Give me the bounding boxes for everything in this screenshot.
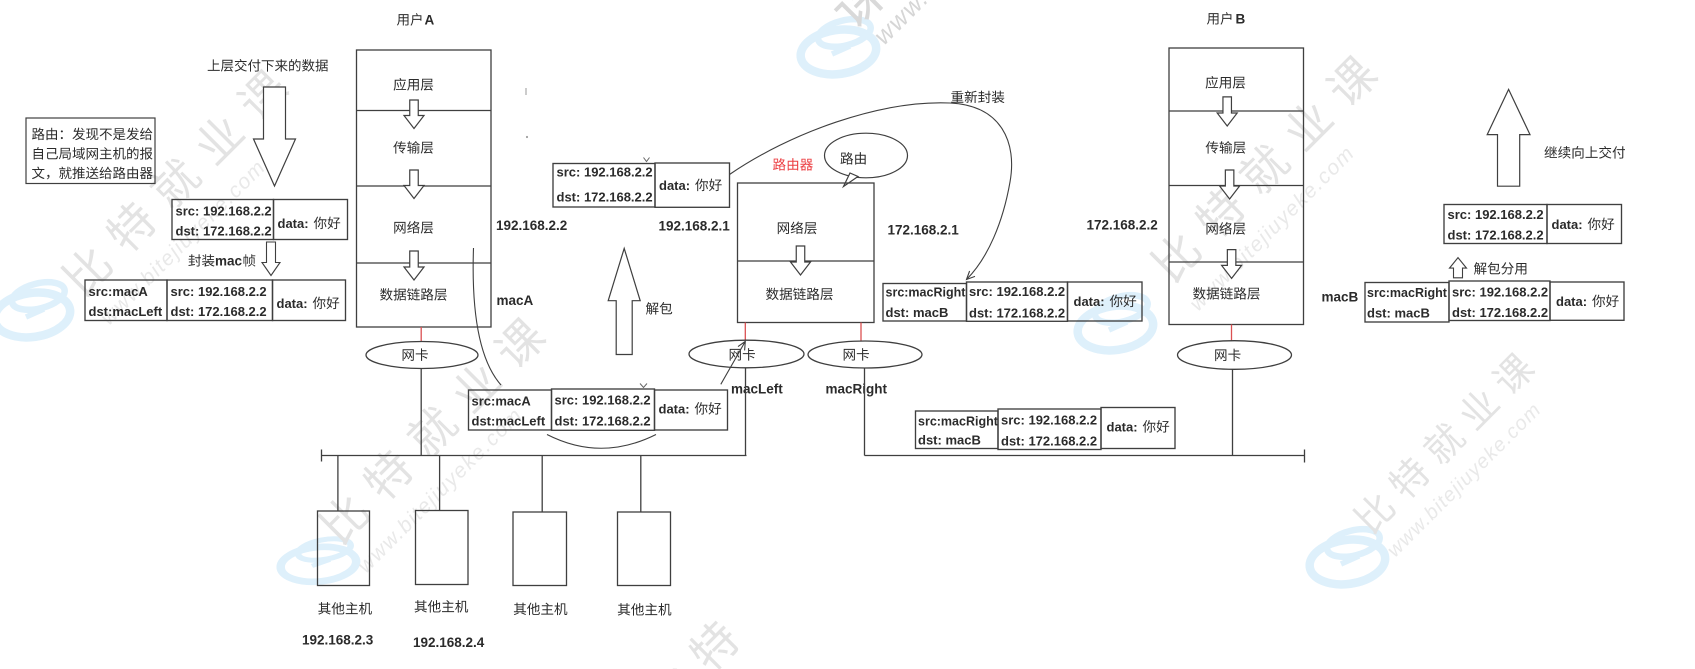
router network layer label	[778, 221, 817, 234]
svg-text:dst: 172.168.2.2: dst: 172.168.2.2	[171, 304, 267, 319]
packet P6 ip cell	[998, 409, 1101, 450]
router label (red)	[773, 158, 813, 171]
svg-text:data:: data:	[1556, 294, 1587, 309]
wire NIC right to bus	[864, 368, 866, 456]
bus left end tick	[321, 450, 323, 462]
packet P7 data cell	[1547, 205, 1622, 244]
svg-text:192.168.2.4: 192.168.2.4	[413, 635, 485, 650]
small arrow encapsulate	[262, 242, 280, 276]
svg-text:src: 192.168.2.2: src: 192.168.2.2	[557, 165, 653, 180]
small arrow unpack-demux	[1450, 258, 1467, 278]
svg-text:dst:macLeft: dst:macLeft	[472, 414, 546, 429]
user A NIC ellipse	[366, 342, 478, 369]
caption unpack	[646, 302, 672, 315]
svg-text:src: 192.168.2.2: src: 192.168.2.2	[555, 393, 651, 408]
svg-text:192.168.2.3: 192.168.2.3	[302, 633, 374, 648]
svg-text:A: A	[425, 13, 435, 28]
packet P3 ip cell	[553, 164, 655, 208]
host box 3	[513, 512, 567, 586]
svg-text:dst: macB: dst: macB	[918, 433, 981, 448]
host box 2	[416, 511, 469, 585]
router red link left	[744, 323, 746, 342]
svg-text:dst: 172.168.2.2: dst: 172.168.2.2	[1448, 228, 1544, 243]
svg-text:src:macRight: src:macRight	[918, 415, 999, 429]
wire user B NIC to bus	[1232, 369, 1234, 455]
user A arrow transport->network	[404, 170, 424, 199]
svg-text:src: 192.168.2.2: src: 192.168.2.2	[1001, 413, 1097, 428]
user A transport layer label	[393, 141, 433, 154]
svg-text:data:: data:	[278, 216, 309, 231]
packet P4 ip cell	[552, 389, 655, 430]
router NIC right ellipse	[808, 341, 922, 368]
router stack box	[738, 183, 875, 323]
user A network layer label	[394, 221, 433, 234]
svg-text:mac: mac	[215, 254, 243, 269]
wire host1	[337, 456, 339, 512]
svg-text:192.168.2.2: 192.168.2.2	[496, 218, 567, 233]
user B stack divider 1	[1169, 110, 1304, 112]
svg-text:dst: 172.168.2.2: dst: 172.168.2.2	[969, 306, 1065, 321]
svg-text:dst: 172.168.2.2: dst: 172.168.2.2	[1001, 434, 1097, 449]
svg-text:src: 192.168.2.2: src: 192.168.2.2	[1448, 207, 1544, 222]
user B arrow 1	[1217, 97, 1237, 126]
svg-text:data:: data:	[277, 296, 308, 311]
router note box	[26, 118, 155, 184]
caption unpack demux	[1474, 262, 1527, 275]
packet P1 ip cell	[172, 200, 274, 240]
svg-text:src:macA: src:macA	[89, 284, 149, 299]
user A stack divider 1	[357, 110, 492, 112]
svg-text:src:macA: src:macA	[472, 394, 532, 409]
user B app layer label	[1206, 76, 1246, 89]
user B red link	[1231, 325, 1233, 341]
packet P2 ip cell	[167, 280, 273, 321]
svg-text:data:: data:	[1107, 420, 1138, 435]
host label 1	[318, 602, 372, 615]
user B stack divider 3	[1169, 261, 1304, 263]
caption re-encapsulate	[951, 91, 1004, 104]
svg-text:data:: data:	[1074, 294, 1105, 309]
host box 1	[318, 511, 370, 586]
bus right end tick	[1304, 450, 1306, 463]
svg-text:dst:macLeft: dst:macLeft	[89, 304, 163, 319]
svg-text:macB: macB	[1322, 290, 1359, 305]
packet P2 mac cell	[85, 280, 167, 321]
svg-text:src:macRight: src:macRight	[1367, 286, 1448, 300]
user A stack divider 3	[357, 262, 492, 264]
arc under P4	[547, 435, 656, 449]
stray mark 1	[525, 88, 527, 95]
packet P3 data cell	[655, 163, 730, 207]
svg-text:dst: 172.168.2.2: dst: 172.168.2.2	[557, 190, 653, 205]
user B layer stack box	[1169, 48, 1304, 325]
host label 4	[618, 603, 672, 616]
bus left	[322, 455, 747, 457]
svg-text:dst: 172.168.2.2: dst: 172.168.2.2	[176, 224, 272, 239]
user A arrow network->datalink	[404, 251, 424, 280]
host label 3	[514, 603, 568, 616]
user B transport layer label	[1206, 141, 1246, 154]
wire host3	[541, 456, 543, 513]
router NIC left ellipse	[689, 340, 804, 368]
packet P5 ip cell	[967, 282, 1068, 321]
host label 2	[415, 600, 469, 613]
svg-text:data:: data:	[1552, 217, 1583, 232]
user B NIC ellipse	[1178, 341, 1292, 370]
svg-text:macRight: macRight	[826, 382, 888, 397]
host box 4	[618, 512, 671, 586]
label user B	[1207, 12, 1232, 25]
wire NIC left to bus	[745, 368, 747, 456]
packet P5 mac cell	[883, 284, 967, 322]
user B network layer label	[1207, 222, 1246, 235]
svg-text:192.168.2.1: 192.168.2.1	[659, 219, 731, 234]
router speech bubble	[825, 133, 908, 178]
router arrow network->datalink	[791, 246, 811, 275]
packet P6 mac cell	[916, 411, 999, 449]
svg-text:src: 192.168.2.2: src: 192.168.2.2	[1452, 285, 1548, 300]
user B arrow 2	[1220, 170, 1240, 199]
user A arrow app->transport	[404, 100, 424, 129]
user A stack to NIC red link	[420, 327, 422, 343]
svg-text:dst: 172.168.2.2: dst: 172.168.2.2	[555, 414, 651, 429]
user A datalink layer label	[380, 288, 447, 301]
packet P4 mac cell	[469, 390, 552, 430]
user B datalink layer label	[1193, 287, 1260, 300]
svg-text:src: 192.168.2.2: src: 192.168.2.2	[969, 284, 1065, 299]
packet P1 data cell	[274, 200, 348, 240]
packet P8 data cell	[1550, 282, 1624, 320]
big arrow data down	[254, 87, 296, 186]
packet P6 data cell	[1101, 408, 1175, 449]
svg-text:src: 192.168.2.2: src: 192.168.2.2	[171, 284, 267, 299]
caption encapsulate mac frame	[189, 254, 215, 266]
packet P7 ip cell	[1444, 205, 1547, 244]
wire host4	[640, 456, 642, 513]
stray mark 2	[526, 136, 528, 138]
svg-text:macLeft: macLeft	[731, 382, 783, 397]
svg-text:B: B	[1236, 12, 1246, 27]
caption upper data	[208, 59, 328, 72]
wire host2	[439, 456, 441, 511]
svg-text:src: 192.168.2.2: src: 192.168.2.2	[176, 204, 272, 219]
deliver-up big arrow	[1487, 89, 1530, 186]
user A layer stack box	[357, 50, 492, 327]
svg-text:src:macRight: src:macRight	[886, 286, 967, 300]
packet P4 data cell	[655, 390, 728, 430]
caption deliver up	[1545, 146, 1626, 159]
stray caret above P3	[644, 158, 650, 162]
svg-text:172.168.2.2: 172.168.2.2	[1087, 218, 1158, 233]
svg-text:macA: macA	[497, 293, 534, 308]
wire user A NIC to bus	[420, 369, 422, 456]
user B stack divider 2	[1169, 185, 1304, 187]
router datalink layer label	[766, 288, 833, 301]
bus right	[865, 455, 1305, 457]
arrow P4 to NIC left	[721, 341, 746, 384]
svg-text:dst: macB: dst: macB	[1367, 306, 1430, 321]
svg-text:dst: macB: dst: macB	[886, 305, 949, 320]
curve user A to packet P4	[473, 248, 501, 385]
svg-text:dst: 172.168.2.2: dst: 172.168.2.2	[1452, 305, 1548, 320]
user A app layer label	[394, 78, 434, 91]
re-encapsulate curve	[730, 103, 1012, 280]
packet P8 ip cell	[1449, 281, 1550, 321]
unpack big arrow	[608, 248, 640, 354]
svg-text:data:: data:	[659, 178, 690, 193]
router stack divider	[738, 260, 875, 262]
user A stack divider 2	[357, 185, 492, 187]
packet P2 data cell	[273, 280, 346, 321]
stray caret above P4	[640, 384, 647, 388]
svg-text:172.168.2.1: 172.168.2.1	[888, 223, 960, 238]
user B arrow 3	[1222, 250, 1242, 279]
packet P8 mac cell	[1365, 283, 1449, 323]
router red link right	[860, 323, 862, 342]
svg-text:data:: data:	[659, 402, 690, 417]
label user A	[397, 13, 422, 26]
packet P5 data cell	[1068, 282, 1143, 321]
